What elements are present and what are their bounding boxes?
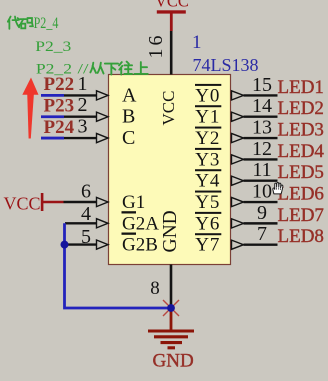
svg-text:Y7: Y7 <box>195 235 220 256</box>
svg-text:B: B <box>122 106 135 128</box>
svg-text:C: C <box>122 127 135 149</box>
svg-text:Y0: Y0 <box>195 85 220 106</box>
svg-text:LED6: LED6 <box>278 184 324 205</box>
svg-text:13: 13 <box>252 117 272 139</box>
svg-text:11: 11 <box>252 159 271 181</box>
svg-text:Y4: Y4 <box>195 171 220 192</box>
svg-text:3: 3 <box>78 116 88 138</box>
svg-text:VCC: VCC <box>4 194 41 214</box>
svg-text:1: 1 <box>192 32 202 53</box>
svg-text:12: 12 <box>252 138 272 160</box>
svg-text:7: 7 <box>257 223 267 245</box>
svg-text://: // <box>78 62 90 78</box>
svg-text:15: 15 <box>252 74 272 96</box>
svg-text:5: 5 <box>81 226 91 248</box>
svg-text:P23: P23 <box>44 96 75 117</box>
svg-text:Y3: Y3 <box>195 149 220 170</box>
svg-text:G2B: G2B <box>122 235 158 256</box>
svg-text:LED1: LED1 <box>278 77 324 98</box>
svg-text:2: 2 <box>78 94 88 116</box>
svg-text:G1: G1 <box>122 192 145 213</box>
svg-text:LED3: LED3 <box>278 120 324 141</box>
svg-text:GND: GND <box>160 210 181 252</box>
svg-text:8: 8 <box>150 278 160 299</box>
svg-text:6: 6 <box>81 181 91 203</box>
svg-text:10: 10 <box>252 181 272 203</box>
svg-text:74LS138: 74LS138 <box>193 55 259 75</box>
svg-text:LED7: LED7 <box>278 205 324 226</box>
svg-text:P2_3: P2_3 <box>35 39 71 55</box>
svg-text:9: 9 <box>257 202 267 224</box>
svg-text:P24: P24 <box>44 117 75 138</box>
svg-text:LED8: LED8 <box>278 226 324 247</box>
svg-text:Y6: Y6 <box>195 213 220 234</box>
svg-text:VCC: VCC <box>155 0 189 11</box>
svg-text:4: 4 <box>81 203 91 225</box>
svg-text:VCC: VCC <box>159 91 178 126</box>
svg-text:Y2: Y2 <box>195 128 220 149</box>
svg-text:Y1: Y1 <box>195 107 220 128</box>
svg-text:LED4: LED4 <box>278 141 325 162</box>
svg-text:Y5: Y5 <box>195 192 220 213</box>
svg-text:14: 14 <box>252 95 272 117</box>
svg-text:LED5: LED5 <box>278 162 324 183</box>
svg-text:A: A <box>122 84 137 106</box>
svg-text:16: 16 <box>145 33 167 59</box>
svg-text:LED2: LED2 <box>278 98 324 119</box>
svg-text:GND: GND <box>153 351 194 372</box>
svg-text:P2_2: P2_2 <box>36 62 72 78</box>
svg-text:G2A: G2A <box>122 213 159 234</box>
svg-text:P2_4: P2_4 <box>34 15 59 32</box>
